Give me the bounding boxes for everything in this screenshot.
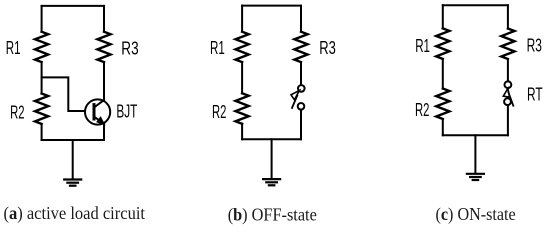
switch top contact circle (b) — [298, 85, 305, 92]
svg-text:R2: R2 — [415, 100, 429, 120]
resistor R2 (a) zigzag — [35, 94, 48, 124]
wire: left branch bottom lead a — [41, 124, 43, 140]
wire: left branch top lead a — [41, 6, 43, 32]
svg-text:R3: R3 — [319, 38, 336, 58]
wire: left branch bottom lead c — [442, 119, 444, 135]
wire: emitter down to bottom rail (a) — [103, 125, 105, 140]
switch bottom contact circle (b) — [298, 103, 305, 110]
switch lever (b, open) — [292, 96, 297, 108]
switch lever arrowhead (c) — [503, 88, 509, 97]
transistor BJT emitter diagonal — [94, 117, 104, 125]
wire: bottom rail b — [242, 138, 301, 140]
wire: top rail a — [42, 5, 104, 7]
wire: R3 to switch top contact (b) — [300, 62, 302, 85]
ground symbol c — [467, 174, 484, 180]
wire: top rail c — [443, 4, 508, 6]
svg-text:(b) OFF-state: (b) OFF-state — [228, 204, 317, 224]
resistor R1 (c) zigzag — [436, 28, 449, 59]
transistor BJT emitter arrowhead — [97, 117, 105, 125]
resistor R2 (b) zigzag — [236, 93, 249, 124]
switch bottom contact circle (c) — [504, 98, 511, 105]
transistor BJT Q1 circle — [85, 99, 110, 124]
transistor BJT collector diagonal — [94, 100, 104, 108]
wire: ground stem c — [474, 135, 476, 173]
svg-text:(a) active load circuit: (a) active load circuit — [4, 203, 146, 223]
wire: left branch bottom lead b — [241, 124, 243, 140]
resistor R1 (a) zigzag — [35, 32, 48, 62]
switch lever (c, closed) — [508, 92, 513, 106]
resistor R2 (c) zigzag — [436, 89, 449, 120]
svg-text:R3: R3 — [527, 36, 542, 56]
resistor R1 (b) zigzag — [236, 32, 249, 62]
wire: ground stem b — [271, 139, 273, 178]
switch top contact circle (c) — [505, 81, 512, 88]
resistor R3 (b) zigzag — [294, 32, 307, 62]
svg-text:R2: R2 — [212, 102, 226, 122]
transistor BJT base bar — [93, 105, 96, 119]
wire: bottom rail c — [443, 134, 508, 136]
resistor R3 (c) zigzag — [501, 29, 514, 60]
svg-text:(c) ON-state: (c) ON-state — [436, 204, 516, 224]
svg-text:R1: R1 — [415, 36, 430, 56]
wire: right branch top lead a — [103, 6, 105, 32]
wire: left branch top lead b — [241, 6, 243, 32]
wire: left branch top lead c — [442, 5, 444, 28]
wire: left branch between R1 and R2 (b) — [241, 62, 243, 93]
wire: R3 to switch top contact (c) — [507, 59, 509, 81]
switch lever arrowhead (b) — [291, 90, 299, 99]
svg-text:R1: R1 — [210, 38, 225, 58]
wire: switch to bottom rail (b) — [300, 110, 302, 139]
svg-text:RT: RT — [527, 85, 543, 105]
svg-text:R1: R1 — [6, 38, 21, 58]
wire: bottom rail a — [42, 139, 104, 141]
svg-text:R3: R3 — [121, 39, 138, 59]
wire: switch to bottom rail (c) — [507, 105, 509, 135]
wire: ground stem a — [72, 140, 74, 179]
wire: right branch top lead b — [300, 6, 302, 32]
wire: R3 to BJT collector (a) — [103, 62, 105, 99]
wire: base feed from R1/R2 junction (a) — [42, 77, 85, 111]
svg-text:R2: R2 — [10, 103, 24, 123]
ground symbol a — [64, 180, 81, 186]
wire: right branch top lead c — [507, 5, 509, 28]
wire: top rail b — [242, 5, 301, 7]
svg-text:BJT: BJT — [116, 102, 137, 122]
resistor R3 (a) zigzag — [97, 32, 110, 62]
ground symbol b — [263, 179, 280, 185]
wire: left branch between R1 and R2 (a) — [41, 62, 43, 93]
wire: left branch between R1 and R2 (c) — [442, 59, 444, 89]
